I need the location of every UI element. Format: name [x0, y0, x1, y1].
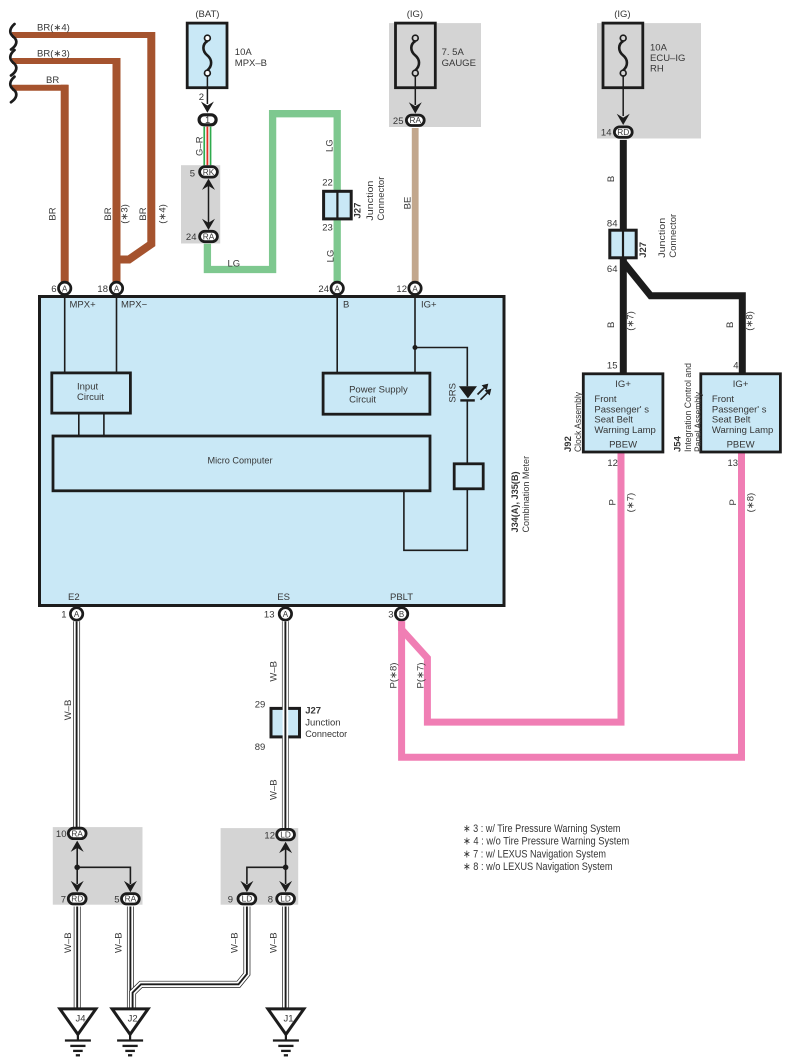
svg-text:Circuit: Circuit [349, 395, 376, 406]
wire BE [412, 128, 419, 282]
svg-text:P: P [728, 499, 739, 505]
break mark wire BR(*3) [10, 50, 16, 76]
wire BR(*4) vertical [118, 32, 151, 260]
pin 12 A circle [409, 282, 421, 294]
svg-text:Junction: Junction [365, 181, 376, 221]
wire P(*7) from pin 3 B to J92 pin 12 [402, 452, 621, 722]
fuse 7.5A GAUGE gray background [389, 23, 481, 127]
ground J1 [268, 1009, 304, 1035]
junction dot [283, 865, 289, 871]
svg-text:7: 7 [61, 895, 66, 906]
branch to 9 LD [247, 867, 286, 884]
arrow up toward 10 RA [71, 841, 84, 852]
svg-text:RA: RA [203, 231, 215, 241]
svg-text:E2: E2 [68, 592, 80, 603]
wire W-B pin 13 to 12 LD (outer edges) [282, 621, 289, 829]
pin 1 A circle [70, 608, 82, 620]
svg-text:(BAT): (BAT) [195, 9, 219, 20]
svg-text:23: 23 [322, 222, 333, 233]
svg-text:J27: J27 [638, 242, 649, 258]
svg-text:10: 10 [56, 829, 67, 840]
wire B from 14 RD to J27 [620, 140, 627, 231]
wire pin24 to power supply circuit [336, 296, 338, 373]
svg-text:MPX+: MPX+ [70, 300, 97, 311]
svg-text:RH: RH [650, 63, 664, 74]
wire BR horizontal [12, 85, 68, 91]
fuse symbol GAUGE [411, 41, 419, 70]
svg-text:B: B [606, 322, 617, 328]
svg-text:G–R: G–R [195, 136, 206, 156]
svg-text:12: 12 [264, 831, 275, 842]
svg-text:LD: LD [280, 830, 291, 840]
resistor box [454, 464, 483, 489]
svg-text:4: 4 [733, 361, 738, 372]
svg-text:13: 13 [728, 458, 739, 469]
svg-text:PBEW: PBEW [727, 439, 755, 450]
svg-text:Input: Input [77, 382, 98, 393]
wire W-B from pin 13 through J27 to 12 LD (over box) [283, 621, 289, 829]
wire W-B 9 LD to ground J2 [133, 907, 247, 1009]
svg-text:B: B [606, 176, 617, 182]
svg-text:IG+: IG+ [421, 300, 437, 311]
svg-text:(IG): (IG) [614, 9, 630, 20]
svg-text:A: A [335, 284, 341, 293]
svg-text:RA: RA [125, 894, 137, 904]
svg-text:J2: J2 [128, 1014, 138, 1025]
svg-text:A: A [62, 284, 68, 293]
wire W-B 7 RD to ground J4 [74, 907, 81, 1009]
wire pin18 to input circuit [116, 296, 118, 373]
svg-text:B: B [725, 322, 736, 328]
svg-text:(∗3): (∗3) [120, 204, 131, 224]
svg-text:(∗7): (∗7) [626, 493, 637, 513]
svg-text:∗ 4 : w/o Tire Pressure Warnin: ∗ 4 : w/o Tire Pressure Warning System [463, 836, 629, 848]
wire dot to LED [415, 348, 467, 387]
svg-text:B: B [399, 610, 404, 619]
svg-text:5: 5 [114, 895, 119, 906]
node dot on IG+ line [413, 345, 418, 350]
svg-text:64: 64 [607, 264, 618, 275]
node 1 oval [199, 115, 216, 125]
svg-text:W–B: W–B [269, 661, 280, 682]
svg-text:Connector: Connector [668, 214, 679, 258]
svg-text:A: A [412, 284, 418, 293]
junction dot [74, 865, 80, 871]
fuse 10A ECU-IG RH box [603, 23, 643, 88]
pin 14 RD oval [614, 127, 632, 137]
svg-text:10A: 10A [235, 47, 253, 58]
wire B(*8) branch to J54 pin 4 [623, 262, 742, 374]
svg-text:Warning Lamp: Warning Lamp [594, 425, 655, 436]
svg-text:Combination Meter: Combination Meter [521, 456, 532, 533]
svg-text:BE: BE [403, 197, 414, 210]
svg-text:SRS: SRS [448, 383, 459, 403]
pin 7 RD oval [68, 894, 86, 904]
svg-text:13: 13 [264, 609, 275, 620]
arrow down into 8 LD [279, 881, 292, 892]
wire BR vertical [61, 85, 69, 283]
svg-text:22: 22 [322, 177, 333, 188]
svg-text:(∗8): (∗8) [746, 493, 757, 513]
svg-text:RK: RK [203, 167, 215, 177]
svg-text:A: A [74, 610, 80, 619]
pin 24 A circle [331, 282, 343, 294]
svg-text:W–B: W–B [113, 932, 124, 953]
svg-text:PBLT: PBLT [390, 592, 413, 603]
wire P(*8) from pin 3 B to J54 pin 13 [402, 452, 742, 757]
svg-text:A: A [114, 284, 120, 293]
svg-text:BR: BR [103, 207, 114, 220]
wire fuse ECU-IG to pin 14 [622, 76, 624, 116]
svg-text:29: 29 [255, 700, 266, 711]
svg-text:ES: ES [277, 592, 290, 603]
svg-text:Panel Assembly: Panel Assembly [693, 392, 704, 452]
svg-text:LG: LG [228, 259, 241, 270]
svg-text:6: 6 [51, 284, 56, 295]
svg-text:24: 24 [186, 232, 197, 243]
wire BR(*3) vertical [113, 58, 121, 282]
wire resistor to micro computer [404, 489, 467, 551]
wire BR(*3) horizontal [12, 58, 120, 64]
svg-text:MPX−: MPX− [121, 300, 148, 311]
svg-text:W–B: W–B [63, 932, 74, 953]
svg-text:RA: RA [410, 115, 422, 125]
junction connector J27 (pins 84/64) [610, 230, 636, 258]
ground block RA/RD/RA gray background [53, 827, 143, 905]
wire LED to resistor box [466, 400, 468, 463]
pin 6 A circle [58, 282, 70, 294]
svg-text:3: 3 [388, 609, 393, 620]
svg-text:Circuit: Circuit [77, 392, 104, 403]
fuse symbol MPX-B [203, 41, 211, 70]
arrow down into 7 RD [71, 881, 84, 892]
wire B(*7) from J27 to J92 pin 15 [620, 257, 627, 374]
svg-text:RA: RA [71, 828, 83, 838]
pin 12 LD oval [277, 829, 295, 839]
wire pin12 to power supply circuit [414, 296, 416, 373]
wire pin6 to input circuit [64, 296, 66, 373]
svg-text:LD: LD [280, 894, 291, 904]
svg-text:J27: J27 [353, 203, 364, 219]
svg-text:BR(∗3): BR(∗3) [37, 49, 70, 60]
pin 8 LD oval [277, 894, 295, 904]
svg-text:Connector: Connector [305, 729, 347, 740]
svg-text:LD: LD [242, 894, 253, 904]
svg-text:24: 24 [318, 284, 329, 295]
svg-text:15: 15 [607, 361, 618, 372]
svg-text:Connector: Connector [376, 177, 387, 221]
svg-text:P: P [608, 499, 619, 505]
svg-text:9: 9 [228, 895, 233, 906]
svg-text:J1: J1 [283, 1014, 293, 1025]
svg-text:7. 5A: 7. 5A [442, 47, 465, 58]
svg-text:GAUGE: GAUGE [442, 58, 476, 69]
fuse 7.5A GAUGE box [396, 23, 436, 88]
break mark wire BR(*4) [10, 24, 16, 50]
svg-text:12: 12 [607, 458, 618, 469]
arrow down into 25 RA [409, 102, 422, 113]
arrow down into node 1 [201, 102, 214, 113]
svg-text:J27: J27 [305, 706, 321, 717]
svg-text:J34(A), J35(B): J34(A), J35(B) [510, 472, 521, 533]
combination meter box J34(A) J35(B) [40, 297, 505, 606]
svg-text:B: B [343, 300, 349, 311]
svg-text:∗ 7 : w/ LEXUS Navigation Syst: ∗ 7 : w/ LEXUS Navigation System [463, 848, 606, 860]
svg-text:P(∗7): P(∗7) [416, 663, 427, 689]
svg-text:IG+: IG+ [733, 379, 749, 390]
svg-text:8: 8 [268, 895, 273, 906]
svg-text:12: 12 [396, 284, 407, 295]
svg-text:∗ 8 : w/o LEXUS Navigation Sys: ∗ 8 : w/o LEXUS Navigation System [463, 861, 613, 873]
svg-text:(IG): (IG) [407, 9, 423, 20]
wire fuse GAUGE to pin 25 [414, 76, 416, 105]
svg-text:25: 25 [393, 116, 404, 127]
pin 5 RA oval [122, 894, 140, 904]
svg-text:Warning Lamp: Warning Lamp [712, 425, 773, 436]
pin 10 RA oval [68, 828, 86, 838]
svg-text:89: 89 [255, 742, 266, 753]
wire W-B 8 LD to ground J1 [282, 907, 289, 1009]
svg-text:10A: 10A [650, 42, 668, 53]
svg-text:5: 5 [190, 168, 195, 179]
svg-text:MPX–B: MPX–B [235, 58, 267, 69]
pin 3 B circle [395, 608, 407, 620]
svg-text:ECU–IG: ECU–IG [650, 53, 685, 64]
connector block RK/RA gray background [181, 165, 220, 243]
wire G-R (green with red stripe) [203, 127, 211, 167]
svg-text:LG: LG [326, 250, 337, 263]
ground block LD/LD/LD gray background [221, 828, 299, 905]
svg-text:W–B: W–B [269, 779, 280, 800]
svg-text:18: 18 [97, 284, 108, 295]
double arrow between RK and RA [208, 183, 210, 226]
svg-text:W–B: W–B [63, 700, 74, 721]
svg-text:BR(∗4): BR(∗4) [37, 23, 70, 34]
svg-text:84: 84 [607, 218, 618, 229]
input circuit box [52, 373, 131, 413]
break mark wire BR [10, 77, 16, 103]
svg-text:Clock Assembly: Clock Assembly [573, 392, 584, 452]
power supply circuit box [323, 373, 430, 414]
pin 13 A circle [279, 608, 291, 620]
svg-text:1: 1 [205, 115, 210, 125]
svg-text:1: 1 [61, 609, 66, 620]
svg-text:Junction: Junction [657, 218, 668, 258]
svg-text:BR: BR [138, 207, 149, 220]
branch to 5 RA [77, 867, 130, 884]
svg-text:Junction: Junction [305, 718, 340, 729]
LED SRS [459, 386, 477, 398]
ground J2 [112, 1009, 148, 1035]
arrow down into 5 RA [124, 881, 137, 892]
svg-text:PBEW: PBEW [609, 439, 637, 450]
integration control and panel assembly J54 box [701, 374, 781, 452]
pin 18 A circle [110, 282, 122, 294]
svg-text:P(∗8): P(∗8) [389, 663, 400, 689]
wire BR(*4) horizontal [12, 32, 154, 38]
svg-text:BR: BR [48, 207, 59, 220]
junction connector J27 (pins 22/23) [324, 191, 352, 219]
wires input circuit to micro computer [78, 413, 80, 436]
svg-text:2: 2 [199, 92, 204, 103]
svg-text:RD: RD [71, 894, 83, 904]
ground J4 [60, 1009, 96, 1035]
svg-text:A: A [283, 610, 289, 619]
svg-text:W–B: W–B [268, 932, 279, 953]
fuse 10A MPX-B box [187, 23, 227, 88]
svg-text:Micro Computer: Micro Computer [208, 456, 273, 467]
pin 25 RA oval [406, 115, 424, 125]
svg-text:(∗4): (∗4) [158, 204, 169, 224]
arrow down into 14 RD [617, 114, 630, 125]
micro computer box [53, 436, 430, 491]
fuse symbol ECU-IG [619, 41, 627, 70]
wire W-B from pin 1 to ground block [73, 621, 80, 828]
wire W-B 5 RA to ground J2 [127, 907, 134, 1009]
svg-text:(∗7): (∗7) [626, 311, 637, 331]
svg-text:LG: LG [325, 139, 336, 152]
pin 5 RK oval [200, 167, 218, 177]
LED light arrows [478, 388, 485, 395]
wire LG loop [207, 114, 337, 283]
pin 9 LD oval [238, 894, 256, 904]
svg-text:14: 14 [601, 128, 612, 139]
svg-text:W–B: W–B [229, 932, 240, 953]
svg-text:BR: BR [46, 75, 59, 86]
svg-text:RD: RD [617, 127, 629, 137]
wire fuse MPX-B to node 1 [206, 76, 208, 104]
arrow up toward 12 LD [279, 842, 292, 853]
svg-text:∗ 3 : w/ Tire Pressure Warning: ∗ 3 : w/ Tire Pressure Warning System [463, 823, 621, 835]
svg-text:J4: J4 [75, 1014, 85, 1025]
arrow down into 9 LD [240, 881, 253, 892]
junction connector J27 (pins 29/89) [271, 708, 300, 737]
svg-text:(∗8): (∗8) [745, 311, 756, 331]
fuse 10A ECU-IG RH gray background [597, 23, 701, 138]
pin 24 RA oval [200, 231, 218, 241]
svg-text:IG+: IG+ [615, 379, 631, 390]
clock assembly J92 box [583, 374, 663, 452]
